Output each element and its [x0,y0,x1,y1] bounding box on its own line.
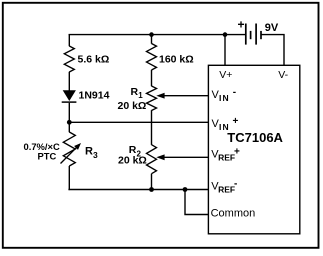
svg-text:20 kΩ: 20 kΩ [118,100,147,112]
svg-text:TC7106A: TC7106A [227,130,283,145]
svg-text:R: R [131,86,139,98]
svg-text:IN: IN [219,93,230,103]
node Common branch junction dot [183,187,188,192]
svg-text:3: 3 [93,150,98,160]
svg-text:R: R [85,146,93,158]
wire 160k top stub [151,34,153,44]
wire R3 to VREF- rail [68,166,70,190]
resistor 5.6 kOhm [64,46,74,72]
wire VREF- rail [68,189,208,191]
svg-text:REF: REF [218,185,235,195]
IC U1 TC7106A [208,65,299,234]
node A junction dot (diode / VIN+ rail / R3) [67,120,72,125]
thermistor R3 PTC [63,132,75,166]
wire V+ drop [224,35,226,66]
potentiometer R2 20k [147,145,157,174]
wire battery to V- drop [261,35,284,66]
svg-text:5.6 kΩ: 5.6 kΩ [78,54,110,66]
svg-text:IN: IN [219,122,230,132]
svg-text:V-: V- [278,69,288,81]
svg-text:-: - [233,87,236,98]
node 160k top junction dot [149,32,154,37]
resistor 160 kOhm [147,44,157,71]
wire R2 wiper to VREF+ pin [160,156,208,158]
svg-text:V+: V+ [219,69,232,81]
potentiometer R1 20k [147,86,157,111]
svg-text:+: + [234,147,240,158]
svg-text:1: 1 [138,91,143,100]
wire R1 wiper to VIN- pin [160,95,208,97]
wire 5.6k top stub [68,34,70,46]
wire top rail [69,34,246,36]
svg-text:9V: 9V [265,22,279,34]
svg-text:+: + [238,18,245,32]
node battery/V+ junction dot [223,32,228,37]
node R2 bottom junction dot [149,187,154,192]
svg-text:REF: REF [218,153,235,163]
wire Common branch [185,190,208,215]
svg-text:1N914: 1N914 [79,90,110,102]
svg-text:+: + [233,116,239,127]
wire R2 bottom to VREF- rail [151,174,153,190]
svg-text:20 kΩ: 20 kΩ [118,155,147,167]
svg-text:Common: Common [211,207,256,219]
svg-text:PTC: PTC [38,150,57,161]
wire VIN+ rail [69,121,208,123]
svg-text:160 kΩ: 160 kΩ [159,54,194,66]
wire 160k to R1 [151,70,153,86]
svg-text:-: - [234,179,237,190]
wire 5.6k to diode [68,72,70,91]
battery BT1 9V [245,24,247,45]
diode D1 1N914 [63,90,76,101]
wire diode to node A [68,103,70,132]
wire R1 bottom to R2 top (crosses VIN+ rail, no connection) [151,110,153,145]
